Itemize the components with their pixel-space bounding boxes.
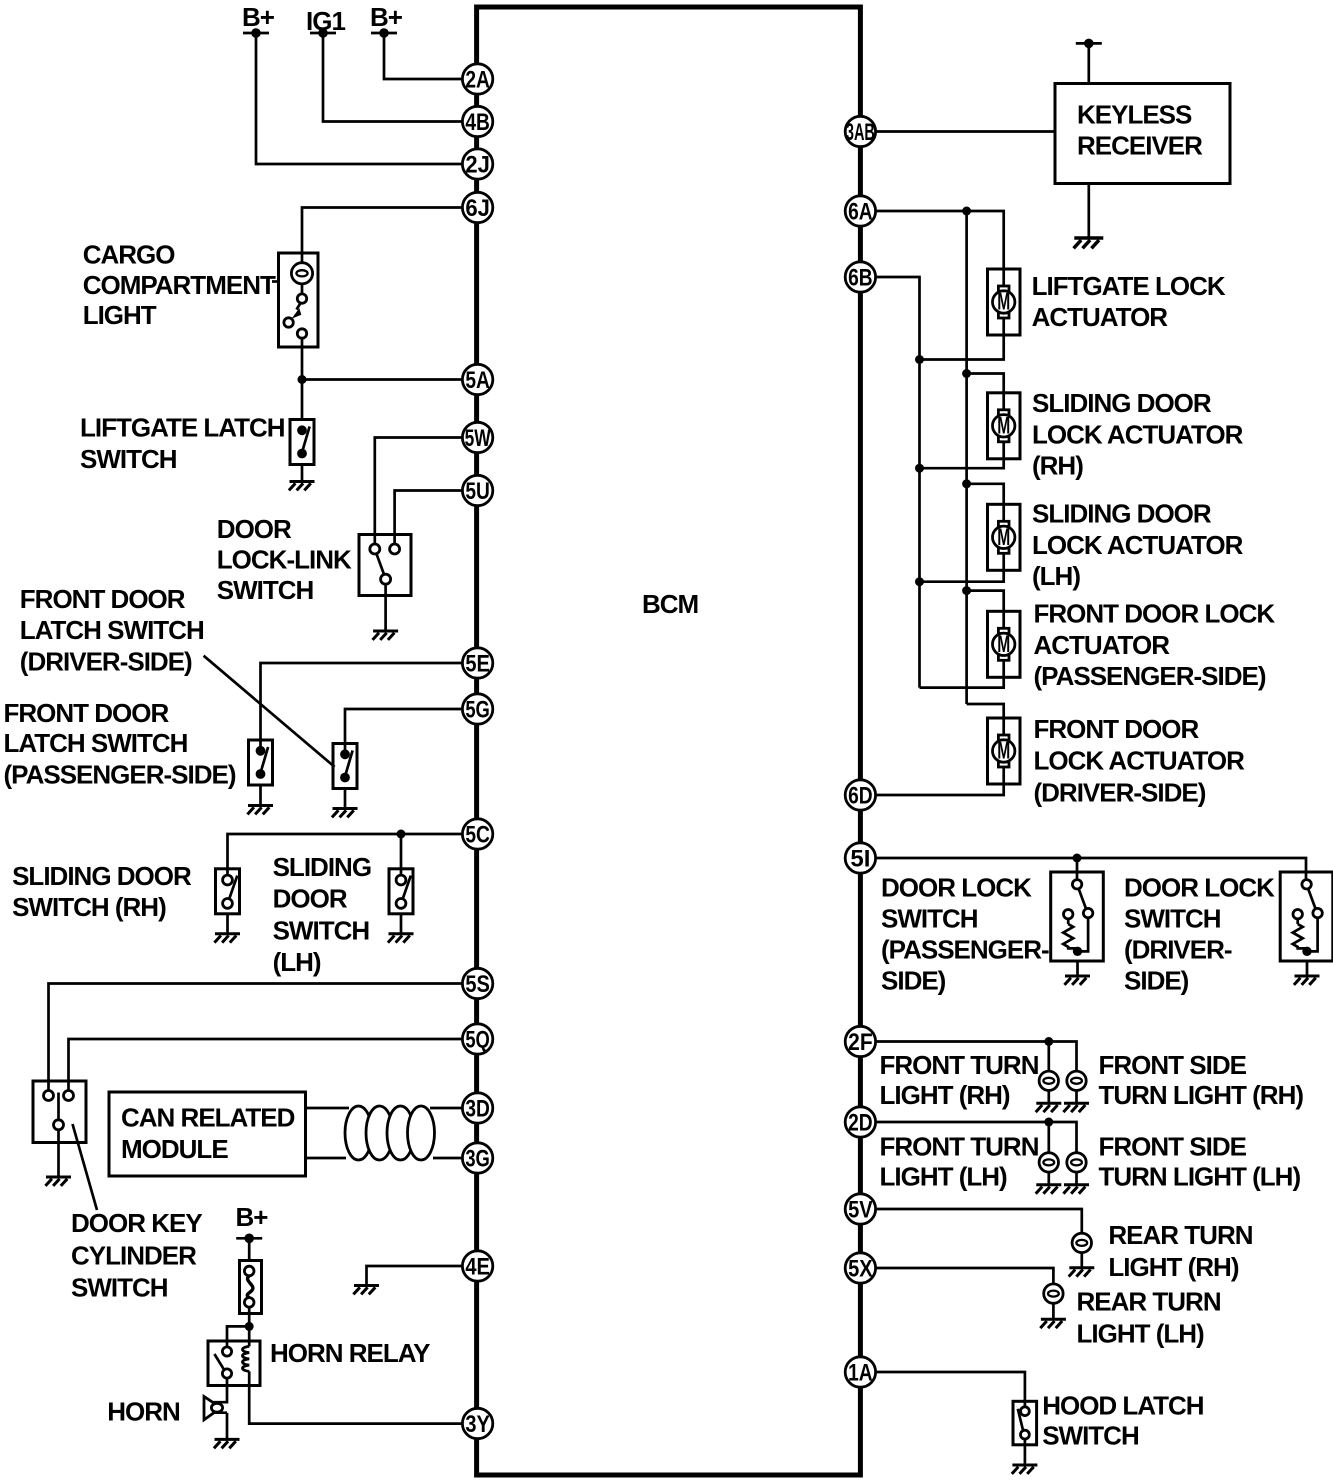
svg-text:DOOR LOCK: DOOR LOCK	[1124, 873, 1275, 903]
ground rear turn RH	[1069, 1268, 1095, 1277]
motor front door lock actuator driver-side	[988, 718, 1021, 784]
wire rear LH bulb to ground	[1052, 1303, 1055, 1319]
ground 4E	[353, 1286, 379, 1295]
wire pin 5U to door lock-link switch	[395, 491, 463, 547]
junction 5C branch	[397, 830, 406, 839]
svg-text:FRONT SIDE: FRONT SIDE	[1099, 1050, 1247, 1080]
node B+ terminal 1	[242, 2, 275, 38]
ground front turn LH	[1036, 1185, 1062, 1194]
label SLIDING DOOR LOCK ACTUATOR (LH)	[1032, 499, 1244, 592]
svg-text:FRONT TURN: FRONT TURN	[880, 1050, 1039, 1080]
wire pin 3AB to keyless receiver	[875, 130, 1055, 133]
label DOOR LOCK SWITCH (PASSENGER-SIDE)	[881, 873, 1049, 996]
junction 5I branch	[1073, 854, 1082, 863]
wire pin 1A to hood latch switch	[875, 1372, 1025, 1407]
pin 1A	[845, 1357, 875, 1387]
wire bulbs RH row to grounds	[1049, 1091, 1077, 1104]
wire pin 5I to door lock switches	[875, 858, 1306, 880]
svg-text:SWITCH: SWITCH	[273, 915, 370, 945]
svg-text:FRONT DOOR: FRONT DOOR	[4, 698, 170, 728]
svg-text:4B: 4B	[465, 109, 490, 136]
pin 4B	[462, 106, 492, 136]
label CAN RELATED MODULE	[121, 1103, 295, 1165]
ground horn	[214, 1439, 240, 1448]
bulb rear turn light RH	[1072, 1233, 1091, 1252]
hood latch switch	[1013, 1401, 1037, 1465]
svg-text:(PASSENGER-: (PASSENGER-	[881, 934, 1049, 964]
pin 2F	[845, 1026, 875, 1056]
svg-text:5A: 5A	[465, 367, 490, 394]
svg-text:DOOR: DOOR	[217, 514, 292, 544]
cargo compartment light	[279, 253, 319, 347]
pin 2J	[462, 149, 492, 179]
svg-text:5I: 5I	[850, 846, 870, 873]
label FRONT DOOR LATCH SWITCH (PASSENGER-SIDE)	[4, 698, 236, 790]
svg-text:SLIDING: SLIDING	[273, 852, 371, 882]
label FRONT DOOR LOCK ACTUATOR (PASSENGER-SIDE)	[1034, 598, 1276, 691]
svg-text:FRONT DOOR LOCK: FRONT DOOR LOCK	[1034, 598, 1276, 628]
pin 2A	[462, 64, 492, 94]
svg-text:LIGHT: LIGHT	[83, 300, 157, 330]
wire pin 5G to front door latch switch passenger-side	[345, 709, 463, 755]
svg-text:SWITCH: SWITCH	[881, 903, 978, 933]
svg-text:LOCK ACTUATOR: LOCK ACTUATOR	[1034, 745, 1246, 775]
wire pin 5C to sliding door switches	[228, 834, 464, 880]
pin 5E	[462, 648, 492, 678]
svg-text:DOOR: DOOR	[273, 884, 348, 914]
svg-text:FRONT DOOR: FRONT DOOR	[1034, 714, 1200, 744]
wire driver actuator to pin 6D	[875, 783, 1004, 795]
svg-text:COMPARTMENT: COMPARTMENT	[83, 270, 276, 300]
motor front door lock actuator passenger-side	[988, 611, 1021, 677]
svg-text:5E: 5E	[465, 651, 490, 678]
junction cargo/5A	[298, 375, 307, 384]
svg-text:6J: 6J	[465, 195, 490, 222]
pin 2D	[845, 1107, 875, 1137]
svg-text:CAN RELATED: CAN RELATED	[121, 1103, 295, 1133]
svg-text:LOCK-LINK: LOCK-LINK	[217, 544, 352, 574]
label DOOR KEY CYLINDER SWITCH	[71, 1208, 202, 1303]
ground sliding RH	[214, 934, 240, 943]
svg-text:5W: 5W	[465, 425, 491, 452]
wire terminal to keyless receiver	[1087, 43, 1090, 83]
motor liftgate lock actuator	[988, 269, 1021, 335]
horn	[204, 1397, 223, 1420]
node B+ terminal 2	[370, 2, 403, 38]
label DOOR LOCK-LINK SWITCH	[217, 514, 352, 605]
wire rear RH bulb to ground	[1080, 1253, 1083, 1268]
svg-text:SWITCH: SWITCH	[1124, 903, 1221, 933]
svg-text:6D: 6D	[848, 783, 873, 810]
BCM box	[477, 7, 861, 1475]
pin 5V	[845, 1194, 875, 1224]
svg-text:B+: B+	[236, 1202, 269, 1232]
label DOOR LOCK SWITCH (DRIVER-SIDE)	[1124, 873, 1275, 996]
door lock switch passenger-side	[1051, 872, 1104, 961]
svg-text:6B: 6B	[848, 265, 873, 292]
svg-text:CARGO: CARGO	[83, 239, 176, 269]
svg-text:TURN LIGHT (RH): TURN LIGHT (RH)	[1099, 1080, 1304, 1110]
horn relay	[208, 1341, 260, 1386]
bulb front turn light LH	[1039, 1153, 1058, 1172]
wire pin 2D to front turn lights LH	[875, 1122, 1077, 1153]
svg-text:LOCK ACTUATOR: LOCK ACTUATOR	[1032, 419, 1244, 449]
pin 5I	[845, 843, 875, 873]
CAN related module	[109, 1092, 306, 1176]
label CARGO COMPARTMENT LIGHT	[83, 239, 276, 330]
svg-text:2F: 2F	[848, 1029, 873, 1056]
svg-text:(LH): (LH)	[1032, 561, 1080, 591]
wire relay switch to horn	[214, 1378, 228, 1402]
label SLIDING DOOR SWITCH (RH)	[12, 861, 192, 922]
label FRONT DOOR LATCH SWITCH (DRIVER-SIDE)	[20, 584, 204, 676]
wire pin 5X to rear turn light LH	[875, 1268, 1053, 1284]
ground keyless receiver	[1074, 238, 1104, 248]
ground hood latch switch	[1012, 1465, 1038, 1474]
junction 6B chain dots	[915, 355, 924, 586]
svg-text:FRONT DOOR: FRONT DOOR	[20, 584, 186, 614]
label SLIDING DOOR SWITCH (LH)	[273, 852, 371, 977]
svg-text:HORN RELAY: HORN RELAY	[270, 1338, 430, 1368]
ground door lock-link switch	[373, 631, 399, 640]
node keyless receiver B+ terminal	[1076, 39, 1102, 49]
pin 6A	[845, 196, 875, 226]
label FRONT TURN LIGHT (RH)	[880, 1050, 1039, 1110]
svg-text:LIFTGATE LOCK: LIFTGATE LOCK	[1032, 271, 1226, 301]
ground lock switch driver	[1294, 976, 1320, 985]
door lock-link switch	[359, 535, 411, 632]
svg-text:5V: 5V	[848, 1197, 873, 1224]
svg-text:LIGHT (LH): LIGHT (LH)	[880, 1162, 1008, 1192]
ground door key cylinder switch	[45, 1177, 71, 1186]
svg-text:2A: 2A	[465, 67, 490, 94]
svg-text:(RH): (RH)	[1032, 451, 1083, 481]
svg-text:1A: 1A	[848, 1360, 873, 1387]
svg-text:HOOD LATCH: HOOD LATCH	[1042, 1391, 1204, 1421]
svg-text:TURN LIGHT (LH): TURN LIGHT (LH)	[1099, 1162, 1301, 1192]
svg-text:4E: 4E	[465, 1254, 490, 1281]
label HOOD LATCH SWITCH	[1042, 1391, 1204, 1451]
pin 6D	[845, 780, 875, 810]
svg-text:5U: 5U	[465, 478, 490, 505]
wire pointer door key cylinder switch	[73, 1124, 98, 1210]
svg-text:LIFTGATE LATCH: LIFTGATE LATCH	[80, 413, 285, 443]
pin 5A	[462, 364, 492, 394]
wire twisted pair to pins 3D 3G	[306, 1106, 464, 1160]
svg-text:HORN: HORN	[107, 1396, 180, 1426]
ground front side turn RH	[1063, 1103, 1089, 1112]
ground liftgate latch switch	[289, 482, 315, 491]
svg-text:ACTUATOR: ACTUATOR	[1034, 630, 1171, 660]
liftgate latch switch	[290, 420, 314, 465]
svg-text:BCM: BCM	[642, 589, 698, 619]
ground lock switch passenger	[1064, 976, 1090, 985]
wire pin 5Q to door key cylinder switch	[69, 1039, 464, 1091]
wire pin 6B chain	[875, 277, 1004, 688]
ground front turn RH	[1036, 1103, 1062, 1112]
wire pin 5V to rear turn light RH	[875, 1209, 1082, 1233]
keyless receiver	[1055, 84, 1230, 184]
label FRONT DOOR LOCK ACTUATOR (DRIVER-SIDE)	[1034, 714, 1246, 808]
pin 5X	[845, 1253, 875, 1283]
wire latch driver to ground	[259, 785, 262, 806]
svg-text:(PASSENGER-SIDE): (PASSENGER-SIDE)	[1034, 661, 1266, 691]
svg-text:FRONT SIDE: FRONT SIDE	[1099, 1132, 1247, 1162]
svg-text:3G: 3G	[465, 1146, 490, 1173]
label REAR TURN LIGHT (RH)	[1108, 1220, 1252, 1282]
pin 5S	[462, 968, 492, 998]
pin 3Y	[462, 1408, 492, 1438]
fuse main fuse	[240, 1261, 262, 1314]
pin 5W	[462, 422, 492, 452]
svg-text:5G: 5G	[465, 697, 490, 724]
svg-text:DOOR LOCK: DOOR LOCK	[881, 873, 1032, 903]
front door latch switch passenger-side	[333, 744, 357, 789]
pin 6B	[845, 262, 875, 292]
pin 5G	[462, 694, 492, 724]
svg-text:5Q: 5Q	[465, 1027, 490, 1054]
svg-text:5C: 5C	[465, 822, 490, 849]
svg-text:SWITCH: SWITCH	[80, 444, 177, 474]
svg-text:SIDE): SIDE)	[1124, 965, 1189, 995]
wire B+1 to pin 2J	[256, 33, 463, 164]
svg-text:FRONT TURN: FRONT TURN	[880, 1132, 1039, 1162]
svg-text:3Y: 3Y	[465, 1411, 490, 1438]
svg-text:(PASSENGER-SIDE): (PASSENGER-SIDE)	[4, 760, 236, 790]
ground front side turn LH	[1063, 1185, 1089, 1194]
svg-text:LIGHT (RH): LIGHT (RH)	[880, 1080, 1010, 1110]
junction fuse/relay	[245, 1322, 254, 1331]
svg-text:(LH): (LH)	[273, 947, 321, 977]
bulb rear turn light LH	[1044, 1284, 1063, 1303]
junction 2D branch	[1044, 1118, 1053, 1127]
wire bulbs LH row to grounds	[1049, 1172, 1077, 1185]
wire B+2 to pin 2A	[384, 33, 463, 79]
svg-text:REAR TURN: REAR TURN	[1077, 1287, 1221, 1317]
motor sliding door lock actuator LH	[988, 504, 1021, 570]
svg-text:(DRIVER-SIDE): (DRIVER-SIDE)	[1034, 778, 1206, 808]
wire lock switch passenger to ground	[1076, 961, 1079, 976]
svg-text:5S: 5S	[465, 971, 490, 998]
label LIFTGATE LATCH SWITCH	[80, 413, 285, 475]
wire pin 6A chain	[875, 211, 1004, 719]
svg-text:KEYLESS: KEYLESS	[1077, 100, 1192, 130]
front door latch switch driver-side	[249, 740, 273, 785]
wire IG1 to pin 4B	[323, 33, 463, 122]
svg-text:LIGHT (LH): LIGHT (LH)	[1077, 1319, 1205, 1349]
pin 3G	[462, 1143, 492, 1173]
wire fuse to horn relay	[227, 1307, 249, 1351]
wire pin 5E to front door latch switch driver-side	[261, 663, 464, 751]
svg-text:ACTUATOR: ACTUATOR	[1032, 302, 1169, 332]
label KEYLESS RECEIVER	[1077, 100, 1203, 161]
bulb front turn light RH	[1039, 1071, 1058, 1090]
pin 3AB	[845, 116, 875, 146]
svg-text:LOCK ACTUATOR: LOCK ACTUATOR	[1032, 530, 1244, 560]
door key cylinder switch	[33, 1081, 86, 1177]
svg-text:B+: B+	[370, 2, 403, 32]
pin 5Q	[462, 1024, 492, 1054]
svg-text:2J: 2J	[465, 152, 490, 179]
label FRONT SIDE TURN LIGHT (RH)	[1099, 1050, 1304, 1110]
svg-text:LATCH SWITCH: LATCH SWITCH	[20, 615, 204, 645]
label LIFTGATE LOCK ACTUATOR	[1032, 271, 1226, 332]
label FRONT SIDE TURN LIGHT (LH)	[1099, 1132, 1301, 1192]
svg-text:B+: B+	[242, 2, 275, 32]
svg-text:SWITCH: SWITCH	[217, 575, 314, 605]
svg-text:6A: 6A	[848, 199, 873, 226]
svg-text:2D: 2D	[848, 1110, 873, 1137]
svg-text:CYLINDER: CYLINDER	[71, 1240, 197, 1270]
wire pin 2F to front turn lights RH	[875, 1042, 1077, 1072]
label SLIDING DOOR LOCK ACTUATOR (RH)	[1032, 388, 1244, 481]
sliding door switch LH	[389, 869, 413, 914]
pin 4E	[462, 1251, 492, 1281]
svg-text:REAR TURN: REAR TURN	[1108, 1220, 1252, 1250]
label FRONT TURN LIGHT (LH)	[880, 1132, 1039, 1192]
wire B+ to fuse	[248, 1238, 251, 1260]
svg-text:IG1: IG1	[306, 6, 345, 36]
svg-text:MODULE: MODULE	[121, 1134, 228, 1164]
pin 5U	[462, 475, 492, 505]
svg-text:SLIDING DOOR: SLIDING DOOR	[1032, 388, 1212, 418]
wire cargo light pointer	[272, 280, 279, 283]
motor sliding door lock actuator RH	[988, 393, 1021, 459]
junction 2F branch	[1044, 1037, 1053, 1046]
ground rear turn LH	[1040, 1319, 1066, 1328]
wire latch passenger to ground	[344, 789, 347, 809]
wire relay coil to pin 3Y	[249, 1371, 463, 1423]
ground latch driver	[247, 806, 273, 815]
node B+ terminal horn	[236, 1202, 269, 1243]
bulb front side turn light LH	[1067, 1153, 1086, 1172]
wire cargo light to junction and pin 5A	[302, 347, 463, 420]
svg-text:SLIDING DOOR: SLIDING DOOR	[12, 861, 192, 891]
pin 5C	[462, 819, 492, 849]
ground latch passenger	[332, 809, 358, 818]
svg-text:LIGHT (RH): LIGHT (RH)	[1108, 1252, 1238, 1282]
svg-text:3AB: 3AB	[846, 119, 875, 146]
wire liftgate latch switch to ground	[301, 465, 304, 482]
wire sliding RH to ground	[226, 914, 229, 934]
svg-text:SWITCH (RH): SWITCH (RH)	[12, 892, 166, 922]
wire lock switch driver to ground	[1306, 961, 1309, 976]
sliding door switch RH	[216, 869, 240, 914]
svg-text:SIDE): SIDE)	[881, 965, 946, 995]
node IG1 terminal	[306, 6, 345, 38]
svg-text:SWITCH: SWITCH	[71, 1273, 168, 1303]
svg-text:SLIDING DOOR: SLIDING DOOR	[1032, 499, 1212, 529]
junction 6A chain dots	[962, 207, 971, 596]
svg-text:RECEIVER: RECEIVER	[1077, 130, 1203, 160]
pin 3D	[462, 1093, 492, 1123]
svg-text:DOOR KEY: DOOR KEY	[71, 1208, 202, 1238]
svg-text:LATCH SWITCH: LATCH SWITCH	[4, 728, 188, 758]
pin 6J	[462, 192, 492, 222]
svg-text:SWITCH: SWITCH	[1042, 1421, 1139, 1451]
wire pin 5W to door lock-link switch	[375, 438, 463, 547]
svg-text:(DRIVER-: (DRIVER-	[1124, 934, 1232, 964]
svg-text:5X: 5X	[848, 1256, 873, 1283]
svg-text:(DRIVER-SIDE): (DRIVER-SIDE)	[20, 647, 192, 677]
wire keyless receiver to ground	[1087, 184, 1090, 239]
wire pointer driver-side latch	[204, 656, 335, 767]
label REAR TURN LIGHT (LH)	[1077, 1287, 1221, 1349]
bulb front side turn light RH	[1067, 1071, 1086, 1090]
wire pin 4E to ground	[367, 1266, 464, 1286]
wire pin 5S to door key cylinder switch	[49, 984, 464, 1091]
door lock switch driver-side	[1280, 872, 1333, 961]
svg-text:3D: 3D	[465, 1096, 490, 1123]
wire horn to ground	[214, 1413, 228, 1440]
wire sliding LH to ground	[400, 914, 403, 934]
wire pin 6J to cargo compartment light	[302, 208, 463, 254]
ground sliding LH	[388, 934, 414, 943]
